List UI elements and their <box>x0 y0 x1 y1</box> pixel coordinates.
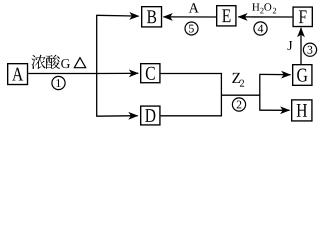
box E <box>217 6 236 26</box>
wire branch to C <box>97 72 138 74</box>
box C <box>141 64 160 83</box>
wire F to E <box>238 16 292 18</box>
circled 4 <box>254 22 267 35</box>
wire branch2 to H <box>259 109 289 111</box>
circled 2 <box>232 98 245 111</box>
box G <box>293 65 312 86</box>
box H <box>292 100 312 121</box>
wire branch to B <box>96 14 139 17</box>
label H2O2 <box>252 3 276 13</box>
box F <box>293 7 312 26</box>
wire E to B <box>163 16 216 18</box>
label nongsuan G (concentrated acid G) <box>31 55 69 69</box>
box B <box>142 7 162 27</box>
label A (reagent) <box>189 3 199 12</box>
branch vertical wire <box>96 15 98 116</box>
wire branch to D <box>96 115 138 118</box>
box A <box>8 64 28 85</box>
circled 1 <box>52 76 65 89</box>
heat triangle <box>74 58 85 68</box>
wire C to merge <box>161 73 222 75</box>
wire A to branch point <box>28 73 97 75</box>
merge vertical wire <box>220 73 222 117</box>
circled 5 <box>185 22 198 35</box>
label Z2 <box>232 73 244 87</box>
label J <box>288 41 293 50</box>
branch2 vertical wire <box>259 74 261 110</box>
circled 3 <box>303 43 316 56</box>
wire merge to branch2 <box>221 94 260 96</box>
wire D to merge <box>161 115 222 117</box>
wire G up to F <box>300 28 302 64</box>
box D <box>141 106 160 125</box>
wire branch2 to G <box>259 73 290 75</box>
